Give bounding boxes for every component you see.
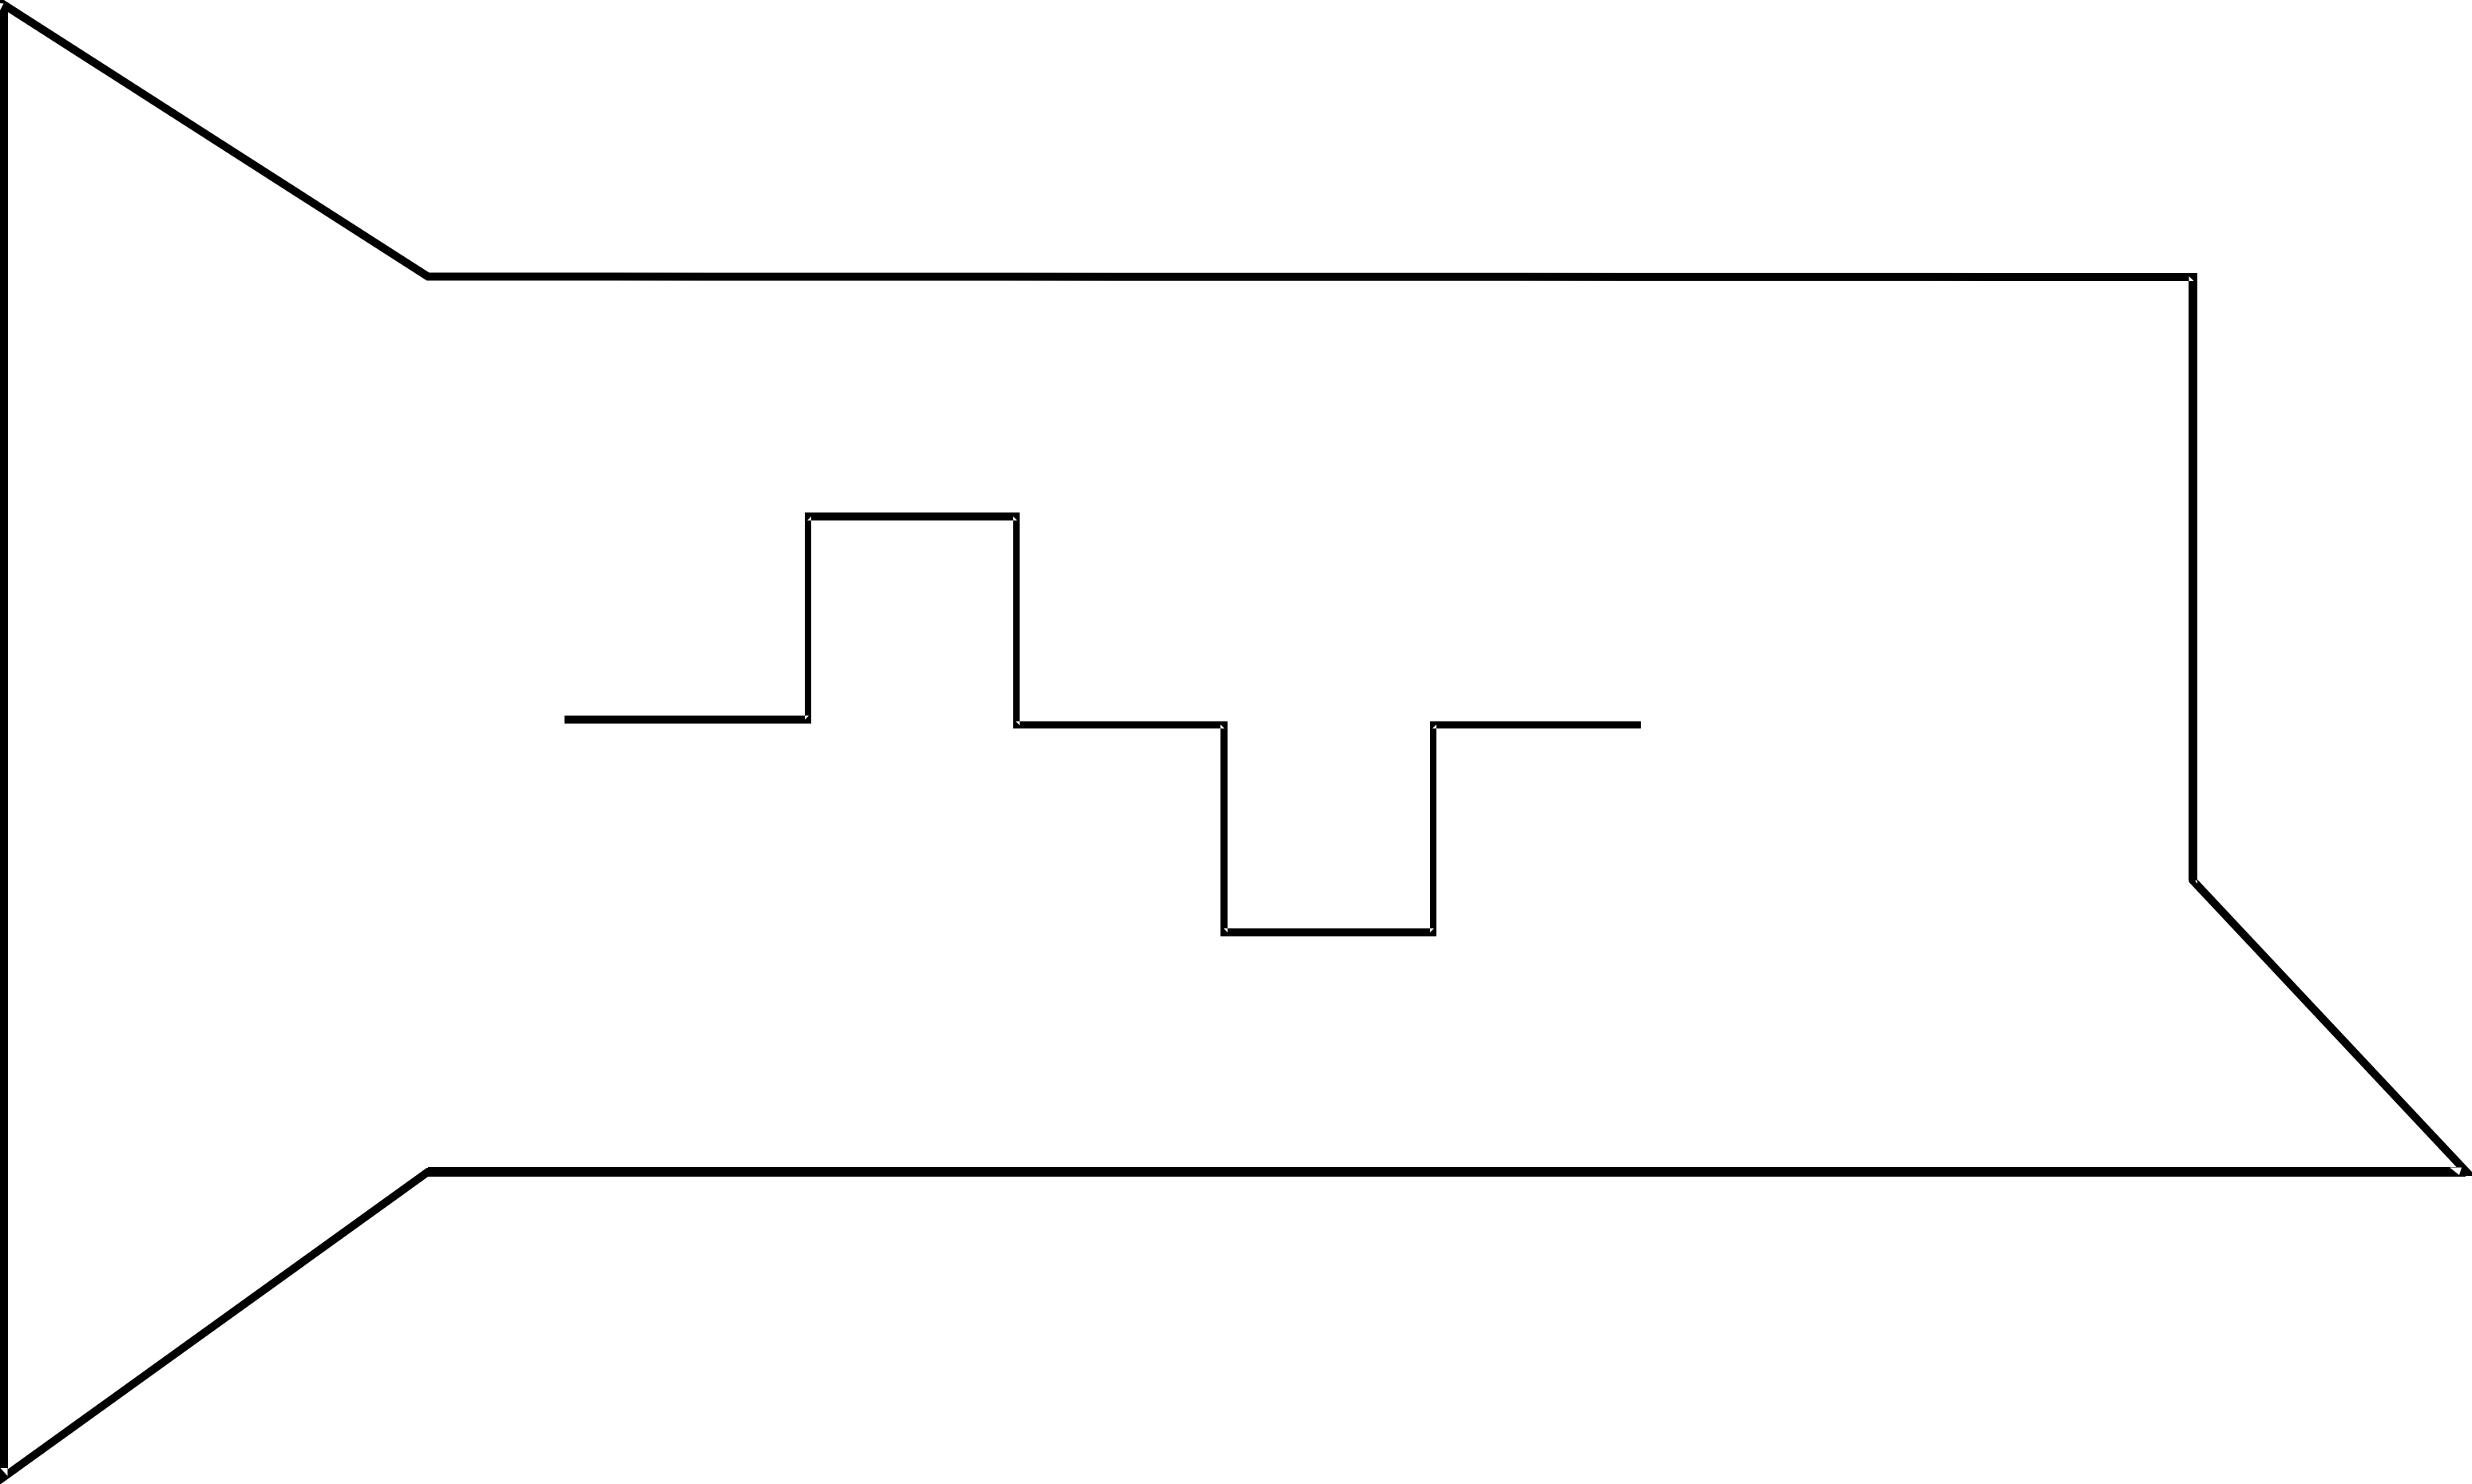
enclosure bottom edge (thicker overlay) [428,1167,2466,1177]
waveform: positive pulse top [805,512,1020,520]
corner notch G (bottom-left) [1,1468,8,1476]
waveform notch 4 [1016,722,1020,726]
waveform: baseline 1 [565,716,811,724]
waveform: negative pulse bottom [1221,928,1437,936]
waveform: falling edge 2 [1221,722,1228,937]
waveform notch 6 [1224,928,1228,932]
corner notch B [414,281,427,286]
enclosure right vertical edge (thicker overlay) [2189,277,2197,881]
waveform notch 2 [807,516,811,520]
waveform: baseline 3 [1430,722,1641,729]
waveform notch 5 [1221,725,1225,729]
waveform: baseline 2 [1013,722,1228,729]
waveform: falling edge 1 [1013,512,1020,729]
waveform: rising edge 1 [805,512,811,724]
waveform: rising edge 2 [1430,722,1436,937]
corner notch A (top-left) [0,3,4,10]
waveform notch 7 [1430,928,1434,932]
corner notch C (top-right) [2189,276,2194,281]
corner notch D [2195,881,2197,884]
waveform notch 1 [805,716,809,720]
waveform notch 3 [1013,516,1017,520]
corner notch E (bottom-right) [2450,1168,2462,1176]
waveform notch 8 [1432,725,1436,729]
